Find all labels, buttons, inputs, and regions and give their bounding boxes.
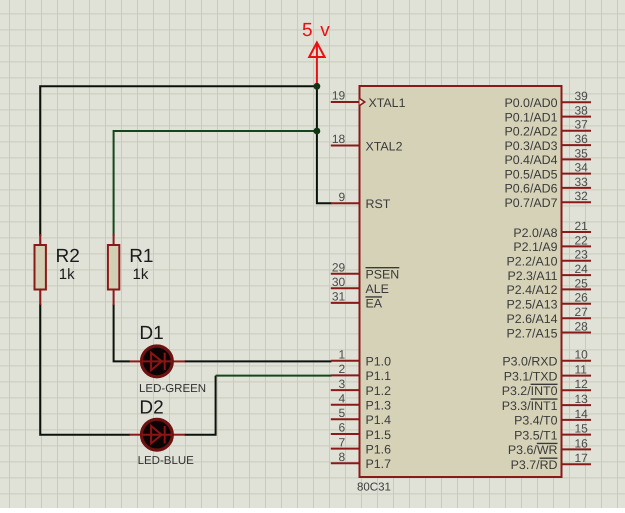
pin 1 / P1.0 stub bbox=[331, 360, 360, 362]
pin 35 / P0.4/AD4 stub bbox=[562, 158, 592, 160]
pin 22 / P2.1/A9 stub bbox=[562, 245, 592, 247]
svg-text:P0.5/AD5: P0.5/AD5 bbox=[504, 167, 557, 181]
LED D2 leads bbox=[129, 434, 185, 436]
pin PSEN overline bbox=[366, 267, 400, 269]
LED D2 body bbox=[142, 419, 173, 450]
pin 8 / P1.7 stub bbox=[331, 462, 360, 464]
svg-text:P1.7: P1.7 bbox=[366, 457, 392, 471]
svg-text:1: 1 bbox=[339, 348, 346, 362]
pin 23 / P2.2/A10 stub bbox=[562, 260, 592, 262]
pin 38 / P0.1/AD1 stub bbox=[562, 116, 592, 118]
pin 39 / P0.0/AD0 stub bbox=[562, 101, 592, 103]
svg-text:37: 37 bbox=[575, 118, 589, 132]
LED D1 body bbox=[142, 346, 173, 377]
pin 10 / P3.0/RXD stub bbox=[562, 360, 592, 362]
svg-text:8: 8 bbox=[339, 450, 346, 464]
pin 24 / P2.3/A11 stub bbox=[562, 274, 592, 276]
svg-text:P2.5/A13: P2.5/A13 bbox=[507, 298, 558, 312]
svg-text:15: 15 bbox=[575, 422, 589, 436]
svg-text:XTAL2: XTAL2 bbox=[366, 139, 403, 153]
pin 7 / P1.6 stub bbox=[331, 448, 360, 450]
svg-text:P3.5/T1: P3.5/T1 bbox=[514, 428, 558, 442]
svg-text:PSEN: PSEN bbox=[366, 268, 400, 282]
svg-text:P3.0/RXD: P3.0/RXD bbox=[502, 355, 557, 369]
svg-text:5 v: 5 v bbox=[302, 20, 331, 41]
IC U1 80C31 body bbox=[360, 86, 562, 477]
pin 28 / P2.7/A15 stub bbox=[562, 332, 592, 334]
svg-text:25: 25 bbox=[575, 276, 589, 290]
pin 9 / RST stub bbox=[331, 202, 360, 204]
pin 36 / P0.3/AD3 stub bbox=[562, 144, 592, 146]
resistor R2 leads bbox=[39, 234, 41, 305]
svg-text:EA: EA bbox=[366, 297, 383, 311]
pin 6 / P1.5 stub bbox=[331, 433, 360, 435]
svg-text:26: 26 bbox=[575, 291, 589, 305]
svg-text:19: 19 bbox=[332, 89, 346, 103]
pin 11 / P3.1/TXD stub bbox=[562, 375, 592, 377]
pin P3.6/WR overline bbox=[537, 442, 558, 444]
pin 27 / P2.6/A14 stub bbox=[562, 317, 592, 319]
svg-text:P0.3/AD3: P0.3/AD3 bbox=[504, 139, 557, 153]
svg-text:P3.6/WR: P3.6/WR bbox=[508, 443, 558, 457]
wire 5V rail: R2 top up and across to power node bbox=[40, 86, 317, 236]
svg-text:P2.7/A15: P2.7/A15 bbox=[507, 326, 558, 340]
svg-text:D2: D2 bbox=[139, 398, 163, 419]
wire R1 top across to power trunk bbox=[114, 131, 317, 236]
svg-text:24: 24 bbox=[575, 262, 589, 276]
svg-text:P2.0/A8: P2.0/A8 bbox=[513, 226, 557, 240]
svg-text:17: 17 bbox=[575, 451, 589, 465]
svg-text:14: 14 bbox=[575, 407, 589, 421]
svg-text:P2.3/A11: P2.3/A11 bbox=[507, 269, 557, 283]
svg-text:22: 22 bbox=[575, 233, 589, 247]
pin 5 / P1.4 stub bbox=[331, 418, 360, 420]
pin EA overline bbox=[366, 296, 383, 298]
svg-text:9: 9 bbox=[339, 190, 346, 204]
svg-text:6: 6 bbox=[339, 421, 346, 435]
svg-text:P0.4/AD4: P0.4/AD4 bbox=[504, 153, 557, 167]
wire LED D1 cathode to pin P1.0 bbox=[185, 360, 332, 362]
pin 26 / P2.5/A13 stub bbox=[562, 303, 592, 305]
svg-text:80C31: 80C31 bbox=[357, 482, 391, 494]
svg-text:P3.7/RD: P3.7/RD bbox=[511, 458, 558, 472]
svg-text:39: 39 bbox=[575, 89, 589, 103]
svg-text:R2: R2 bbox=[56, 246, 80, 267]
pin 12 / P3.2/INT0 stub bbox=[562, 389, 592, 391]
svg-text:34: 34 bbox=[575, 161, 589, 175]
svg-text:11: 11 bbox=[575, 363, 588, 377]
resistor R1 leads bbox=[113, 234, 115, 305]
svg-text:P0.1/AD1: P0.1/AD1 bbox=[504, 110, 557, 124]
pin 37 / P0.2/AD2 stub bbox=[562, 130, 592, 132]
pin P3.2/INT0 overline bbox=[531, 383, 558, 385]
pin 32 / P0.7/AD7 stub bbox=[562, 201, 592, 203]
pin P3.7/RD overline bbox=[540, 457, 558, 459]
svg-text:P2.1/A9: P2.1/A9 bbox=[513, 240, 557, 254]
power symbol 5V arrow bbox=[309, 43, 324, 87]
svg-text:P1.5: P1.5 bbox=[366, 428, 392, 442]
pin 29 / PSEN stub bbox=[331, 273, 360, 275]
svg-text:35: 35 bbox=[575, 146, 589, 160]
svg-text:P0.7/AD7: P0.7/AD7 bbox=[504, 196, 557, 210]
svg-text:28: 28 bbox=[575, 319, 589, 333]
wire R2 bottom to LED D2 anode bbox=[40, 304, 130, 435]
pin 15 / P3.5/T1 stub bbox=[562, 434, 592, 436]
wire power node down to RST pin bbox=[317, 86, 332, 203]
pin 19 / XTAL1 stub bbox=[331, 101, 360, 103]
svg-text:32: 32 bbox=[575, 189, 589, 203]
svg-text:16: 16 bbox=[575, 436, 589, 450]
svg-text:P3.2/INT0: P3.2/INT0 bbox=[502, 384, 558, 398]
LED D1 leads bbox=[129, 360, 185, 362]
svg-text:33: 33 bbox=[575, 175, 589, 189]
svg-text:P1.2: P1.2 bbox=[366, 384, 392, 398]
svg-text:P2.2/A10: P2.2/A10 bbox=[507, 255, 558, 269]
junction node R1 rail bbox=[314, 128, 321, 135]
pin 21 / P2.0/A8 stub bbox=[562, 231, 592, 233]
svg-text:1k: 1k bbox=[133, 266, 149, 283]
resistor R2 body bbox=[35, 245, 46, 290]
svg-text:P3.3/INT1: P3.3/INT1 bbox=[502, 399, 558, 413]
pin 14 / P3.4/T0 stub bbox=[562, 419, 592, 421]
svg-text:P1.4: P1.4 bbox=[366, 413, 392, 427]
svg-text:7: 7 bbox=[339, 435, 346, 449]
svg-text:P2.4/A12: P2.4/A12 bbox=[507, 283, 558, 297]
pin 31 / EA stub bbox=[331, 302, 360, 304]
pin XTAL1 clock chevron bbox=[360, 98, 365, 105]
pin 2 / P1.1 stub bbox=[331, 374, 360, 376]
svg-text:5: 5 bbox=[339, 406, 346, 420]
svg-text:1k: 1k bbox=[59, 266, 75, 283]
svg-text:30: 30 bbox=[332, 275, 346, 289]
svg-text:21: 21 bbox=[575, 219, 589, 233]
svg-text:P1.3: P1.3 bbox=[366, 399, 392, 413]
pin 16 / P3.6/WR stub bbox=[562, 448, 592, 450]
pin 4 / P1.3 stub bbox=[331, 404, 360, 406]
svg-text:10: 10 bbox=[575, 348, 589, 362]
svg-text:P0.0/AD0: P0.0/AD0 bbox=[504, 96, 557, 110]
svg-text:3: 3 bbox=[339, 377, 346, 391]
wire to pin P1.1 bbox=[216, 375, 332, 377]
svg-text:4: 4 bbox=[339, 391, 346, 405]
svg-text:2: 2 bbox=[339, 362, 346, 376]
svg-text:P3.4/T0: P3.4/T0 bbox=[514, 414, 558, 428]
pin 17 / P3.7/RD stub bbox=[562, 463, 592, 465]
pin 25 / P2.4/A12 stub bbox=[562, 288, 592, 290]
pin 18 / XTAL2 stub bbox=[331, 145, 360, 147]
junction node at 5V rail bbox=[314, 83, 321, 90]
svg-text:38: 38 bbox=[575, 104, 589, 118]
pin 34 / P0.5/AD5 stub bbox=[562, 173, 592, 175]
svg-text:ALE: ALE bbox=[366, 282, 389, 296]
resistor R1 body bbox=[108, 245, 119, 290]
svg-text:18: 18 bbox=[332, 132, 346, 146]
svg-text:29: 29 bbox=[332, 260, 346, 274]
svg-text:LED-GREEN: LED-GREEN bbox=[139, 383, 206, 395]
svg-text:D1: D1 bbox=[139, 323, 163, 344]
svg-text:P3.1/TXD: P3.1/TXD bbox=[504, 369, 558, 383]
svg-text:LED-BLUE: LED-BLUE bbox=[138, 455, 195, 467]
pin 13 / P3.3/INT1 stub bbox=[562, 404, 592, 406]
wire LED D2 cathode up to pin P1.1 bbox=[185, 376, 216, 435]
svg-text:P1.0: P1.0 bbox=[366, 355, 392, 369]
svg-text:R1: R1 bbox=[129, 246, 153, 267]
pin 3 / P1.2 stub bbox=[331, 389, 360, 391]
svg-text:12: 12 bbox=[575, 377, 589, 391]
pin 33 / P0.6/AD6 stub bbox=[562, 187, 592, 189]
svg-text:P0.2/AD2: P0.2/AD2 bbox=[504, 125, 557, 139]
svg-text:RST: RST bbox=[366, 197, 391, 211]
svg-text:23: 23 bbox=[575, 248, 589, 262]
pin P3.3/INT1 overline bbox=[531, 398, 558, 400]
pin 30 / ALE stub bbox=[331, 287, 360, 289]
svg-text:P2.6/A14: P2.6/A14 bbox=[507, 312, 558, 326]
svg-text:27: 27 bbox=[575, 305, 589, 319]
wire R1 bottom to LED D1 anode bbox=[114, 304, 130, 361]
svg-text:13: 13 bbox=[575, 392, 589, 406]
svg-text:36: 36 bbox=[575, 132, 589, 146]
svg-text:P1.1: P1.1 bbox=[366, 369, 392, 383]
svg-text:31: 31 bbox=[332, 290, 346, 304]
svg-text:XTAL1: XTAL1 bbox=[369, 96, 406, 110]
svg-text:P0.6/AD6: P0.6/AD6 bbox=[504, 182, 557, 196]
svg-text:P1.6: P1.6 bbox=[366, 442, 392, 456]
